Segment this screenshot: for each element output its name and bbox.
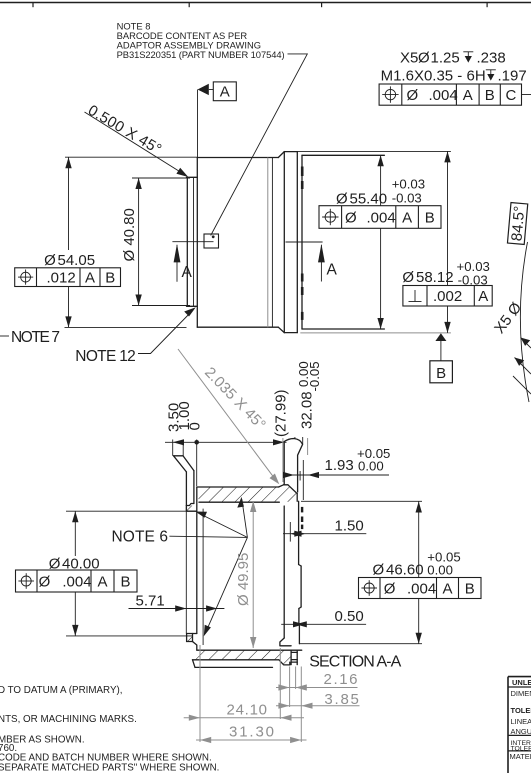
svg-text:31.30: 31.30 (229, 723, 274, 740)
svg-text:A: A (85, 270, 95, 287)
svg-text:TOLERA: TOLERA (511, 706, 531, 715)
svg-text:0.50: 0.50 (335, 608, 364, 625)
svg-text:Ø 49.95: Ø 49.95 (235, 553, 252, 606)
svg-text:.004: .004 (407, 581, 436, 598)
svg-text:Ø: Ø (345, 210, 357, 227)
svg-text:.004: .004 (429, 87, 458, 104)
svg-text:Ø: Ø (336, 191, 348, 208)
svg-text:B: B (465, 581, 475, 598)
svg-text:-0.03: -0.03 (392, 191, 422, 206)
svg-text:A: A (182, 264, 193, 281)
svg-text:A: A (97, 573, 107, 590)
svg-text:-0.05: -0.05 (307, 361, 322, 391)
svg-text:NTS, OR MACHINING MARKS.: NTS, OR MACHINING MARKS. (0, 714, 137, 725)
svg-text:PB31S220351 (PART NUMBER 10754: PB31S220351 (PART NUMBER 107544) (117, 49, 285, 60)
svg-text:.002: .002 (433, 288, 462, 305)
svg-text:MATERIA: MATERIA (510, 752, 531, 761)
svg-text:(27.99): (27.99) (272, 389, 289, 437)
svg-text:A: A (463, 87, 473, 104)
svg-text:0.00: 0.00 (358, 459, 384, 474)
svg-text:Ø: Ø (44, 252, 56, 269)
svg-text:NOTE 6: NOTE 6 (112, 528, 169, 545)
svg-text:55.40: 55.40 (350, 191, 388, 208)
svg-text:.238: .238 (477, 50, 506, 67)
svg-text:.197: .197 (498, 68, 527, 85)
svg-text:Ø: Ø (39, 573, 51, 590)
svg-text:Ø: Ø (407, 87, 419, 104)
svg-text:B: B (105, 270, 115, 287)
svg-text:Ø 40.80: Ø 40.80 (121, 208, 138, 261)
svg-text:32.08: 32.08 (299, 391, 316, 429)
svg-text:2.16: 2.16 (324, 671, 358, 688)
svg-text:UNLES: UNLES (512, 678, 531, 687)
svg-text:46.60: 46.60 (386, 562, 424, 579)
svg-text:+0.03: +0.03 (392, 176, 425, 191)
svg-text:B: B (120, 573, 130, 590)
svg-text:D TO DATUM A (PRIMARY),: D TO DATUM A (PRIMARY), (0, 685, 122, 696)
svg-text:C: C (505, 87, 516, 104)
svg-text:84.5°: 84.5° (508, 205, 528, 242)
svg-text:LINEAR: LINEAR (511, 717, 531, 726)
svg-text:X5: X5 (400, 50, 418, 67)
svg-text:B: B (425, 210, 435, 227)
svg-text:0: 0 (186, 422, 203, 430)
svg-text:0.00: 0.00 (427, 563, 453, 578)
svg-text:ANGU: ANGU (511, 727, 531, 736)
svg-text:1.50: 1.50 (335, 518, 364, 535)
svg-text:B: B (485, 87, 495, 104)
svg-text:54.05: 54.05 (58, 252, 96, 269)
svg-text:Ø: Ø (402, 269, 414, 286)
svg-text:A: A (442, 581, 452, 598)
svg-text:1.25: 1.25 (431, 50, 460, 67)
svg-text:NOTE 12: NOTE 12 (75, 348, 136, 365)
svg-text:A: A (478, 288, 488, 305)
svg-text:SEPARATE MATCHED PARTS" WHERE: SEPARATE MATCHED PARTS" WHERE SHOWN. (0, 763, 219, 773)
svg-text:Ø: Ø (373, 562, 385, 579)
svg-text:Ø: Ø (384, 581, 396, 598)
svg-text:58.12: 58.12 (416, 269, 454, 286)
svg-text:.004: .004 (367, 210, 396, 227)
svg-text:.004: .004 (62, 573, 91, 590)
svg-text:DIMEN: DIMEN (511, 689, 531, 698)
svg-text:.012: .012 (47, 270, 76, 287)
svg-text:A: A (327, 262, 338, 279)
svg-text:Ø: Ø (418, 50, 430, 67)
svg-text:A: A (220, 83, 230, 100)
svg-text:A: A (402, 210, 412, 227)
svg-text:SECTION A-A: SECTION A-A (309, 654, 401, 671)
svg-text:M1.6X0.35 - 6H: M1.6X0.35 - 6H (381, 68, 486, 85)
svg-text:5.71: 5.71 (136, 593, 165, 610)
svg-text:NOTE 7: NOTE 7 (11, 329, 60, 346)
svg-text:B: B (436, 365, 446, 382)
svg-text:1.93: 1.93 (325, 457, 354, 474)
svg-text:24.10: 24.10 (227, 701, 268, 718)
